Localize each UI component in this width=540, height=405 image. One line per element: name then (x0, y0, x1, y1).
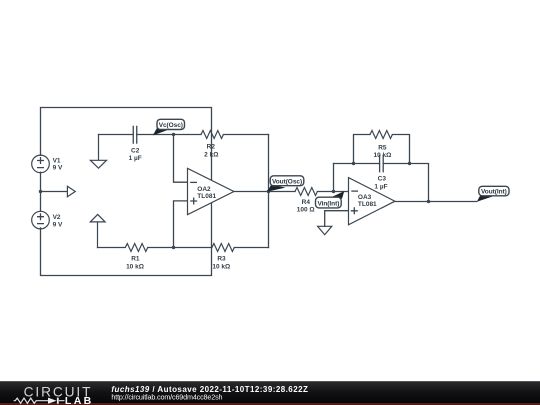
svg-text:TL081: TL081 (358, 201, 377, 208)
op-amp OA3 (349, 178, 395, 225)
wire V1 bottom to V2 top (40, 172, 42, 211)
node dot Vout(Osc) (267, 190, 270, 193)
svg-text:9 V: 9 V (53, 165, 63, 172)
svg-text:http://circuitlab.com/c69dm4cc: http://circuitlab.com/c69dm4cc8e2sh (111, 393, 222, 402)
resistor R4 (295, 188, 317, 196)
svg-text:10 kΩ: 10 kΩ (126, 263, 144, 270)
svg-text:Vout(Int): Vout(Int) (481, 189, 507, 196)
label R2 2k (204, 143, 218, 158)
svg-text:TL081: TL081 (197, 193, 216, 200)
wire OA2 output to R4 (234, 191, 295, 193)
logo LAB text (65, 395, 94, 405)
svg-text:C2: C2 (131, 148, 140, 155)
node dot V1-V2 (39, 190, 42, 193)
op-amp OA2 (188, 168, 234, 214)
logo CIRCUIT text (24, 384, 93, 399)
junction node dots (39, 133, 430, 249)
wire ground1 to C2 (99, 134, 133, 136)
svg-text:10 kΩ: 10 kΩ (212, 263, 230, 270)
svg-text:10 kΩ: 10 kΩ (373, 152, 391, 159)
svg-text:R3: R3 (217, 256, 226, 263)
svg-text:9 V: 9 V (53, 221, 63, 228)
wire OA2 plus input down to R1R3 rail (174, 201, 188, 248)
node arrow flag (between V1 and V2) (67, 186, 75, 197)
svg-text:R5: R5 (378, 144, 387, 151)
node dot Vc(Osc) (172, 133, 175, 136)
logo resistor zigzag and arrow (14, 398, 65, 403)
wire R1 to R3 (148, 247, 212, 249)
wire C3 right segment (383, 164, 428, 202)
footer bar (0, 381, 540, 405)
label R4 100 (297, 199, 315, 214)
svg-text:Vin(Int): Vin(Int) (317, 200, 339, 207)
svg-text:Vout(Osc): Vout(Osc) (272, 178, 302, 185)
flag Vout(Osc) (267, 176, 304, 192)
svg-text:Vc(Osc): Vc(Osc) (159, 122, 183, 129)
label V2 9V (53, 214, 63, 228)
wire R4 to OA3 minus input (317, 191, 348, 193)
ground (near C2) (90, 135, 106, 169)
label R3 10k (212, 256, 230, 271)
footer text line1 fuchs139 autosave (111, 385, 308, 394)
svg-text:OA2: OA2 (197, 186, 211, 193)
wire ground2 arrow to R1 (98, 247, 126, 249)
wire feedback vertical x=268 (268, 135, 270, 248)
wire bottom rail V2- to OA2 V- (41, 203, 212, 276)
wire OA3 plus input to ground3 (325, 211, 349, 227)
node dot R5-C3 left (352, 162, 355, 165)
svg-text:R2: R2 (207, 143, 216, 150)
svg-text:R1: R1 (131, 256, 140, 263)
wire C3 left segment (334, 163, 380, 165)
wire Vin node up to C3 wire (333, 164, 335, 192)
flag Vout(Int) (477, 186, 509, 202)
wire top rail V1+ to OA2 V+ (41, 108, 212, 181)
label C3 1uF (374, 176, 387, 191)
node dot R5-C3 right (408, 162, 411, 165)
svg-text:1 µF: 1 µF (374, 183, 387, 190)
svg-text:OA3: OA3 (358, 194, 372, 201)
resistor R3 (212, 244, 234, 252)
label R5 10k (373, 144, 391, 159)
resistor R1 (125, 244, 147, 252)
wire R5 loop (354, 135, 371, 164)
ground flipped (left of R1) (90, 214, 105, 247)
svg-text:V1: V1 (53, 157, 61, 164)
svg-text:R4: R4 (302, 199, 311, 206)
svg-text:C3: C3 (378, 176, 387, 183)
svg-text:V2: V2 (53, 214, 61, 221)
wire OA3 output to Vout(Int) (395, 201, 477, 203)
flag Vc(Osc) (153, 119, 185, 135)
wire Vc node down to OA2 minus input (174, 135, 188, 183)
wire C2 to R2 (137, 134, 201, 136)
resistor R5 (370, 131, 392, 139)
svg-text:1 µF: 1 µF (129, 155, 142, 162)
flag Vin(Int) (316, 191, 345, 208)
label V1 9V (53, 157, 63, 171)
svg-text:LAB: LAB (65, 395, 94, 405)
voltage source V2 (32, 211, 50, 229)
label C2 1uF (129, 148, 142, 162)
wire R5 right lead (392, 135, 409, 164)
capacitor C2 (133, 126, 137, 144)
footer text line2 url (111, 393, 222, 402)
node dot plus input rail (172, 246, 175, 249)
svg-text:2 kΩ: 2 kΩ (204, 151, 218, 158)
label R1 10k (126, 256, 144, 271)
svg-text:100 Ω: 100 Ω (297, 207, 315, 214)
capacitor C3 (380, 155, 384, 173)
node dot Vin(Int) (332, 190, 335, 193)
resistor R2 (201, 131, 223, 139)
wire R2 to feedback corner (223, 134, 268, 136)
wire R3 to feedback vertical (234, 247, 268, 249)
ground (below OA3 plus input) (318, 226, 332, 234)
voltage source V1 (32, 155, 50, 173)
node dot OA3 output feedback (427, 200, 430, 203)
wire node arrow stub (41, 191, 68, 193)
